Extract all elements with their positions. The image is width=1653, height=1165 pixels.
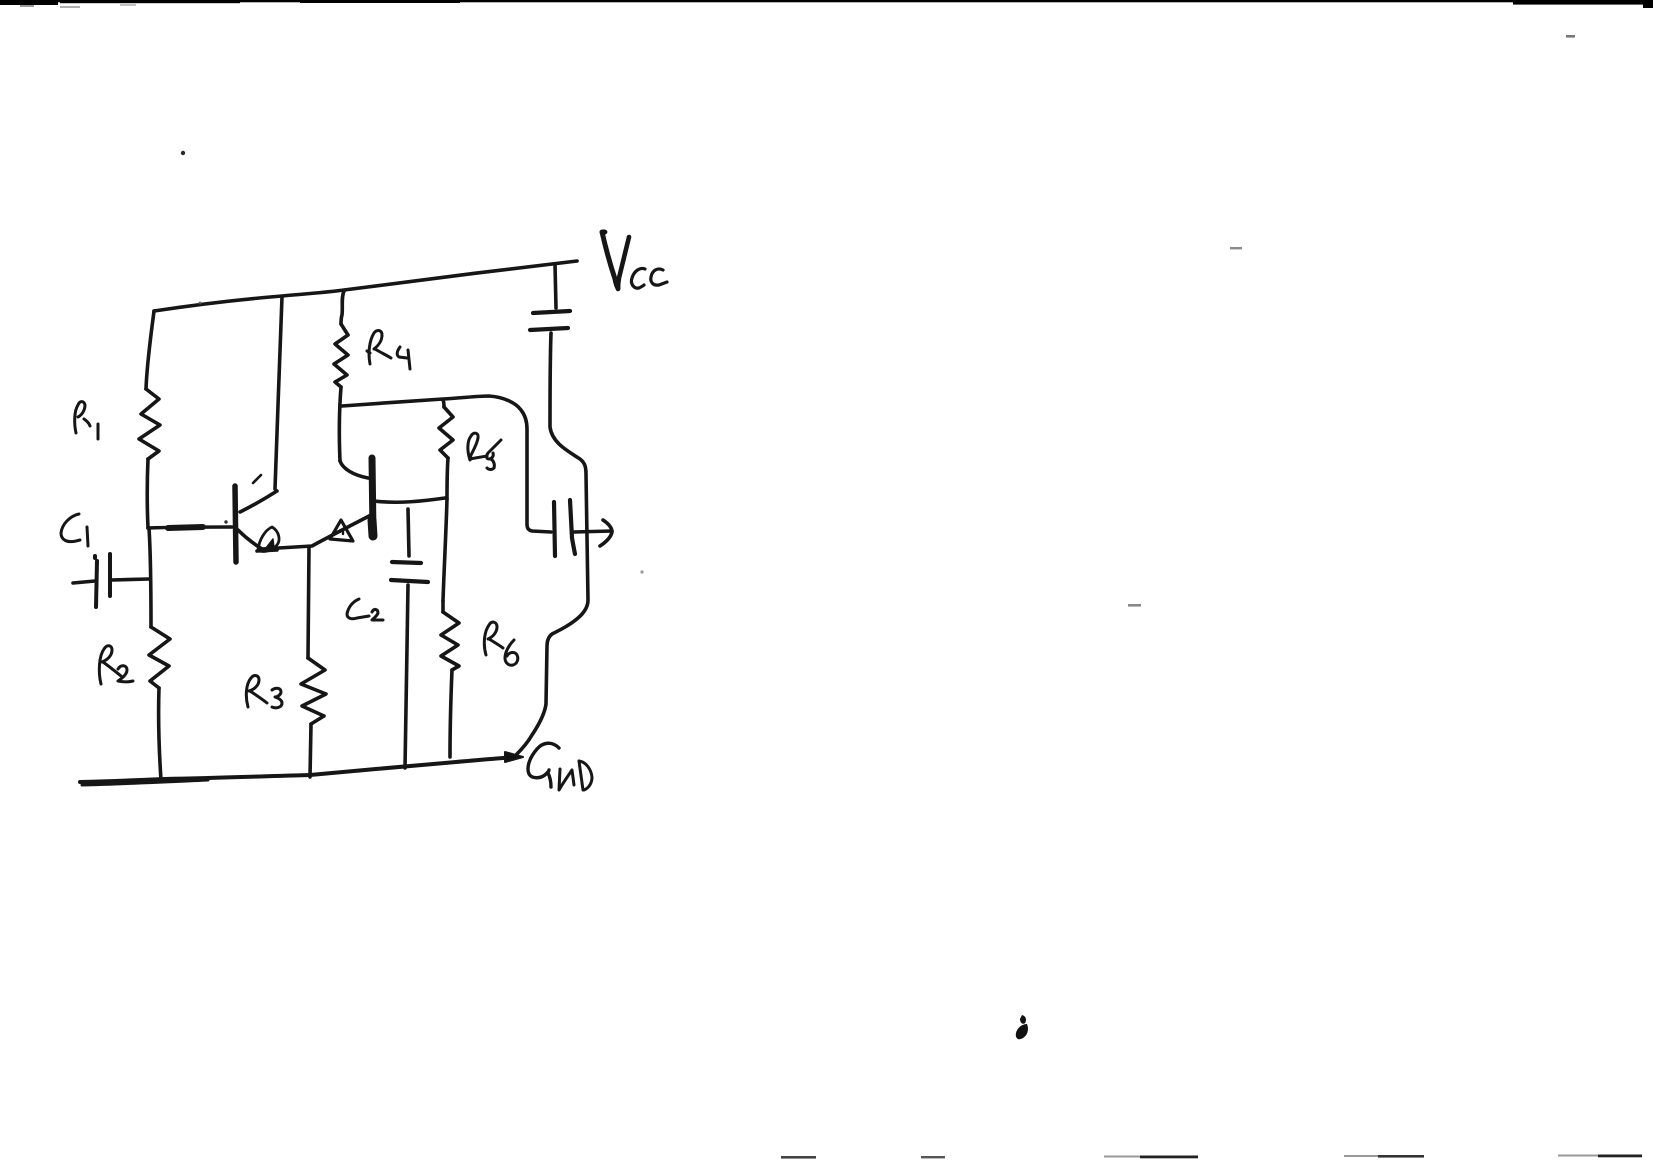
- capacitor: output coupling cap: [554, 500, 575, 556]
- transistor Q2: [330, 458, 373, 541]
- resistor R4: [334, 291, 368, 478]
- wire: Vcc top rail: [154, 261, 577, 311]
- resistor R3: [301, 547, 326, 777]
- wire: emitter bus Q1 to Q2 with R3 tap: [262, 515, 371, 549]
- label R5: [468, 433, 501, 469]
- resistor R1: [139, 311, 160, 528]
- resistor R6: [441, 601, 459, 757]
- label R4: [367, 331, 410, 369]
- wire: Q1 collector to Vcc rail: [275, 297, 282, 489]
- label R1: [75, 402, 98, 439]
- capacitor C2: [391, 509, 428, 768]
- ground label GND: [528, 743, 592, 790]
- wire: R5/R6 divider junction lead: [443, 499, 447, 601]
- transistor Q1: [199, 302, 279, 562]
- wire: decoupling cap to ground (right side run): [516, 333, 588, 755]
- label R2: [99, 646, 133, 684]
- label C2: [347, 599, 383, 620]
- resistor R5: [439, 400, 453, 499]
- wire: Q2 base to R5/R6 divider: [374, 498, 445, 502]
- capacitor: Vcc decoupling cap: [530, 264, 570, 330]
- label C1: [61, 514, 88, 546]
- capacitor C1: [73, 554, 149, 607]
- wire: Q2 collector node to output cap: [342, 396, 551, 532]
- wire: output lead with arrow: [574, 520, 612, 546]
- ground rail: [80, 752, 523, 785]
- label R6: [484, 622, 517, 665]
- wire: input node to Q1 base: [148, 527, 232, 528]
- resistor R2: [149, 528, 170, 780]
- label R3: [246, 676, 282, 708]
- power label Vcc: [601, 229, 667, 289]
